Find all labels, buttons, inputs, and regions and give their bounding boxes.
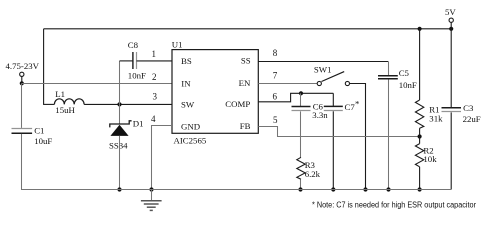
wire pin 8 SS line [258,61,388,63]
svg-text:GND: GND [181,121,200,131]
ground symbol [151,190,153,201]
svg-text:5: 5 [273,115,278,125]
svg-text:FB: FB [240,121,251,131]
svg-text:6: 6 [273,91,278,101]
wire pin 6 COMP lead [258,93,333,102]
svg-text:3.3n: 3.3n [312,110,328,120]
svg-text:5V: 5V [445,7,456,17]
wire SW1 to ground vertical [350,84,366,190]
wire C8 left vertical to SW node [119,61,121,105]
svg-text:D1: D1 [133,119,144,129]
svg-text:*: * [355,99,359,109]
svg-text:10nF: 10nF [128,70,146,80]
wire R2 upper lead [419,137,421,144]
op-amp U1 AIC2565 body [172,50,258,134]
wire 5V stub [450,22,452,28]
wire input stub [21,77,23,84]
wire ground rail [22,189,452,191]
svg-text:22uF: 22uF [463,114,481,124]
wire SW node from L1 to pin 3 [84,103,172,105]
wire left vertical from top rail to L1 [43,29,45,105]
diode D1 triangle [110,125,128,136]
wire pin 5 FB line [258,127,419,137]
svg-text:BS: BS [181,56,192,66]
node C5 ground dot [386,187,390,191]
svg-text:1: 1 [152,49,157,59]
node input junction dot [20,81,24,85]
wire D1 cathode lead [119,104,121,124]
wire IN line to pin 2 [22,83,172,85]
wire R1 upper lead [419,29,421,100]
wire R3 lower lead [300,179,302,190]
capacitor C8 [132,52,134,69]
node output rail R1 dot [418,27,422,31]
svg-text:U1: U1 [172,40,183,50]
diode D1 schottky cathode bar [110,121,132,128]
capacitor C7 [324,105,343,107]
wire C8 left lead [120,60,133,62]
resistor R1 [415,100,423,128]
resistor R2 [415,144,423,167]
resistor R3 [297,157,305,179]
svg-text:6.2k: 6.2k [305,169,321,179]
node C7 ground dot [331,187,335,191]
wire pin 4 GND lead [152,126,173,190]
svg-text:L1: L1 [55,89,65,99]
node output rail C3 dot [449,27,453,31]
wire D1 anode to ground rail [119,136,121,190]
wire C5 upper lead [388,62,390,76]
switch SW1 right contact [345,81,349,85]
capacitor C3 [442,107,462,109]
svg-text:SS: SS [241,56,251,66]
svg-text:C7: C7 [345,102,356,112]
switch SW1 left contact [317,81,321,85]
wire C7 lower lead to ground [332,111,334,189]
node R3 ground dot [298,187,302,191]
node D1 ground dot [117,187,121,191]
svg-text:* Note: C7 is needed for high: * Note: C7 is needed for high ESR output… [312,201,476,210]
switch SW1 lever [322,72,345,82]
inductor L1 [54,99,84,105]
wire pin 1 lead BS [137,60,173,62]
node FB divider dot [418,134,422,138]
svg-text:10uF: 10uF [34,136,52,146]
svg-text:3: 3 [153,92,158,102]
svg-text:EN: EN [239,78,251,88]
svg-text:SW1: SW1 [314,64,332,74]
svg-text:4: 4 [151,114,156,124]
capacitor C5 [378,75,398,77]
node SW1 ground dot [363,187,367,191]
svg-text:SW: SW [181,100,195,110]
svg-text:C8: C8 [128,40,139,50]
svg-text:10nF: 10nF [399,80,417,90]
capacitor C6 [292,106,311,108]
svg-text:AIC2565: AIC2565 [174,135,207,145]
svg-text:C3: C3 [463,103,474,113]
wire pin 7 EN lead [258,83,317,85]
svg-text:2: 2 [152,72,157,82]
capacitor C1 [12,128,33,130]
svg-text:15uH: 15uH [55,105,75,115]
wire L1 left lead [43,103,54,105]
wire C5 lower lead [388,79,390,190]
wire R1 lower lead [419,128,421,136]
wire C7 upper lead [332,93,334,106]
node R2 ground dot [418,187,422,191]
terminal 5V circle [449,18,453,22]
wire top output rail 5V [44,28,452,30]
node ground rail dot [149,187,153,191]
svg-text:SS34: SS34 [109,140,128,150]
wire R2 lower lead [419,167,421,190]
node SW junction dot [117,102,121,106]
wire C6 upper lead [300,93,302,106]
svg-text:IN: IN [181,79,191,89]
wire C3 lower lead [450,112,452,189]
wire C1 lower lead [21,134,23,190]
node COMP junction dot [299,91,303,95]
wire C3 upper lead [450,29,452,107]
svg-text:7: 7 [273,70,278,80]
terminal input circle [20,72,24,76]
svg-text:C5: C5 [399,68,410,78]
wire C6 to R3 vertical [300,111,302,157]
svg-text:COMP: COMP [225,99,250,109]
svg-text:8: 8 [273,48,278,58]
svg-text:C1: C1 [34,125,44,135]
svg-text:31k: 31k [429,113,443,123]
svg-text:4.75-23V: 4.75-23V [6,61,40,71]
svg-text:10k: 10k [423,154,437,164]
wire C1 upper lead [21,83,23,128]
